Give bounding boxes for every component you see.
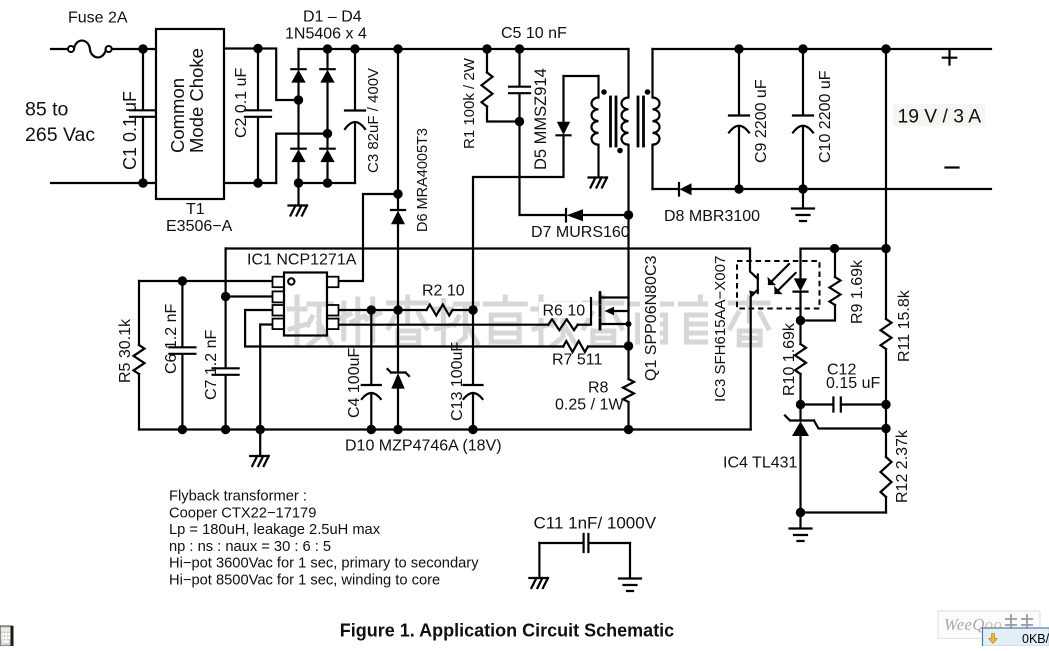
svg-text:D8 MBR3100: D8 MBR3100 bbox=[664, 208, 760, 225]
svg-text:R8: R8 bbox=[588, 380, 609, 397]
svg-text:R5 30.1k: R5 30.1k bbox=[117, 318, 134, 383]
svg-text:C4 100uF: C4 100uF bbox=[346, 348, 363, 418]
svg-text:Cooper CTX22−17179: Cooper CTX22−17179 bbox=[169, 505, 316, 521]
svg-text:Hi−pot 8500Vac for 1 sec, wind: Hi−pot 8500Vac for 1 sec, winding to cor… bbox=[169, 573, 440, 589]
svg-text:R11 15.8k: R11 15.8k bbox=[896, 289, 913, 362]
svg-text:C7 1.2 nF: C7 1.2 nF bbox=[203, 330, 220, 400]
svg-text:D6 MRA4005T3: D6 MRA4005T3 bbox=[415, 128, 431, 232]
svg-text:np : ns : naux = 30 : 6 : 5: np : ns : naux = 30 : 6 : 5 bbox=[169, 539, 331, 555]
svg-text:Lp = 180uH, leakage 2.5uH max: Lp = 180uH, leakage 2.5uH max bbox=[169, 522, 381, 538]
svg-text:19 V / 3 A: 19 V / 3 A bbox=[898, 107, 982, 128]
svg-text:C13 100uF: C13 100uF bbox=[449, 342, 466, 421]
svg-text:Flyback transformer :: Flyback transformer : bbox=[169, 489, 307, 505]
svg-text:Mode Choke: Mode Choke bbox=[186, 48, 207, 153]
svg-text:Figure 1. Application Circuit: Figure 1. Application Circuit Schematic bbox=[340, 621, 674, 641]
svg-text:C5 10 nF: C5 10 nF bbox=[501, 25, 567, 42]
svg-text:IC3 SFH615AA−X007: IC3 SFH615AA−X007 bbox=[712, 256, 729, 402]
svg-text:D1 – D4: D1 – D4 bbox=[303, 9, 362, 26]
svg-text:C10 2200 uF: C10 2200 uF bbox=[817, 70, 834, 163]
svg-text:265 Vac: 265 Vac bbox=[25, 124, 95, 146]
svg-text:R12 2.37k: R12 2.37k bbox=[894, 429, 911, 503]
svg-text:IC1 NCP1271A: IC1 NCP1271A bbox=[247, 252, 357, 269]
svg-text:Q1 SPP06N80C3: Q1 SPP06N80C3 bbox=[643, 255, 660, 381]
svg-text:C11 1nF/ 1000V: C11 1nF/ 1000V bbox=[534, 514, 657, 533]
svg-text:T1: T1 bbox=[186, 201, 205, 218]
svg-text:R6 10: R6 10 bbox=[543, 303, 586, 320]
svg-text:Fuse 2A: Fuse 2A bbox=[68, 10, 128, 27]
svg-text:C2 0.1 uF: C2 0.1 uF bbox=[233, 68, 250, 138]
svg-text:C3 82uF / 400V: C3 82uF / 400V bbox=[365, 68, 382, 173]
svg-text:IC4 TL431: IC4 TL431 bbox=[723, 455, 798, 472]
svg-text:E3506−A: E3506−A bbox=[166, 218, 233, 235]
svg-text:C6 1.2 nF: C6 1.2 nF bbox=[163, 304, 180, 374]
svg-text:C9 2200 uF: C9 2200 uF bbox=[753, 79, 770, 163]
svg-text:C1 0.1 uF: C1 0.1 uF bbox=[120, 91, 140, 170]
svg-text:R7 511: R7 511 bbox=[552, 352, 603, 369]
svg-text:Hi−pot 3600Vac for 1 sec, prim: Hi−pot 3600Vac for 1 sec, primary to sec… bbox=[169, 556, 479, 572]
svg-text:0.25 / 1W: 0.25 / 1W bbox=[555, 397, 624, 414]
svg-text:R10 1.69k: R10 1.69k bbox=[781, 322, 798, 396]
svg-text:85 to: 85 to bbox=[25, 99, 69, 121]
svg-text:R1 100k / 2W: R1 100k / 2W bbox=[461, 57, 478, 149]
svg-text:R2 10: R2 10 bbox=[422, 283, 465, 300]
svg-text:D5 MMSZ914: D5 MMSZ914 bbox=[532, 68, 550, 170]
svg-text:0.15 uF: 0.15 uF bbox=[826, 375, 880, 392]
svg-text:D7 MURS160: D7 MURS160 bbox=[531, 224, 630, 241]
svg-text:R9 1.69k: R9 1.69k bbox=[849, 259, 866, 324]
svg-text:Common: Common bbox=[167, 78, 188, 153]
svg-text:1N5406 x 4: 1N5406 x 4 bbox=[285, 26, 367, 43]
svg-text:0KB/S: 0KB/S bbox=[1022, 632, 1049, 646]
svg-text:D10 MZP4746A (18V): D10 MZP4746A (18V) bbox=[345, 438, 502, 455]
